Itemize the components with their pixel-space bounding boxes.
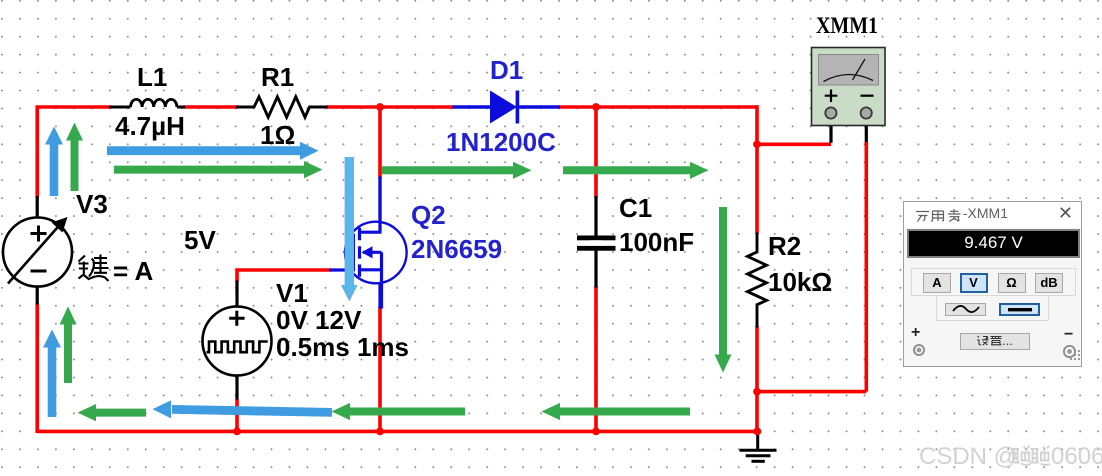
diode D1 1N1200C [453,91,561,124]
svg-text:Q2: Q2 [411,200,446,230]
svg-text:C1: C1 [619,193,652,223]
label C1 [619,193,652,223]
current arrow green right (C1 to R2) [563,162,709,179]
junction node C1 / top rail [592,103,600,111]
wire left vertical below V3 [35,303,39,433]
svg-text:10kΩ: 10kΩ [768,267,832,297]
wire V1 top to Q2 gate (red) [235,270,331,282]
transistor Q2 2N6659 (NMOS) [345,177,407,309]
wire V1 top lead (black) [235,281,238,309]
value label 0V 12V [276,305,362,335]
wire right vertical top (to R2) [755,105,759,234]
current arrow blue right (top, through L1-R1) [107,142,319,160]
wire L1 to R1 [183,105,238,109]
value label 1ohm [260,120,295,150]
wire V3 bottom lead (black) [36,286,39,305]
label V3 [76,189,108,219]
value label 10kohm [768,267,832,297]
label R2 [768,231,801,261]
wire V3 top lead (black) [36,196,39,218]
junction node V1 / bottom rail [233,428,241,436]
multimeter dialog window 万用表-XMM1 [903,201,1082,367]
current arrow green left (bottom, C1 to Q2) [332,403,466,420]
wire V1 bottom lead (black) [235,375,238,400]
value label 1N1200C [446,127,556,157]
svg-text:V1: V1 [276,278,308,308]
current arrow cyan down (through Q2) [341,157,358,302]
svg-text:0606: 0606 [1051,443,1102,470]
current arrow green right (top, through L1-R1) [114,161,323,178]
value label 0.5ms 1ms [276,332,409,362]
wire multimeter minus lead (red) [757,142,866,392]
wire multimeter plus lead (red) [757,143,831,147]
label Q2 [411,200,446,230]
resistor R2 10kohm [748,233,767,328]
wire Q2 drain branch (red part) [378,107,382,178]
wire Q2 gate lead (blue) [330,268,354,271]
value label 100nF [619,227,694,257]
current arrow blue up (left top) [45,127,63,197]
wire Q2 source branch (red part) [378,307,382,431]
wire V1 bottom branch (red) [235,399,239,431]
key label: 键 = A (glyph drawn) [79,255,154,287]
junction node Q2 drain / top rail [376,103,384,111]
svg-text:V3: V3 [76,189,108,219]
wire Q2 drain (blue) [378,177,381,233]
label L1 [137,62,167,92]
junction node ground / bottom rail [753,428,761,436]
resistor R1 1ohm [236,97,328,117]
wire bottom rail [37,430,758,434]
junction node Q2 source / bottom rail [376,428,384,436]
svg-text:= A: = A [113,256,153,286]
current arrow green left (bottom far left) [78,404,147,421]
watermark CSDN @聪聪0606 [919,443,1102,470]
ground symbol [740,432,777,461]
value label 5V [184,225,216,255]
svg-text:0.5ms 1ms: 0.5ms 1ms [276,332,409,362]
svg-text:L1: L1 [137,62,167,92]
svg-text:4.7µH: 4.7µH [115,111,185,141]
instrument label XMM1 [816,13,878,38]
svg-text:R2: R2 [768,231,801,261]
wire top-left segment (V3 to L1) [37,105,111,198]
svg-text:100nF: 100nF [619,227,694,257]
svg-text:2N6659: 2N6659 [411,234,502,264]
wire R1 to D1 [326,105,454,109]
wire right vertical bottom (R2 to ground node) [755,326,759,432]
wire D1 to right corner (node out) [559,105,759,109]
svg-text:0V 12V: 0V 12V [276,305,362,335]
junction node multimeter plus / right rail [753,140,761,148]
current arrow blue left (bottom, V1 to left) [153,400,333,418]
svg-text:1N1200C: 1N1200C [446,127,556,157]
label V1 [276,278,308,308]
capacitor C1 100nF [577,196,616,288]
current arrow green right (Q2 to C1) [382,162,532,179]
wire C1 branch top (red) [594,107,598,198]
svg-text:R1: R1 [261,62,294,92]
svg-text:D1: D1 [490,55,523,85]
current arrow blue up (left bottom) [43,330,61,418]
junction node multimeter minus / right rail [753,388,761,396]
svg-text:CSDN @: CSDN @ [919,443,1018,470]
wire multimeter plus black stub [829,117,832,143]
value label 4.7uH [115,111,185,141]
junction node C1 / bottom rail [592,428,600,436]
source V1 (pulse 0V 12V) [203,307,272,376]
wire Q2 source (blue) [378,252,381,308]
label D1 [490,55,523,85]
current arrow green up (left top) [66,123,83,192]
wire C1 branch bottom (red) [594,286,598,431]
inductor L1 4.7uH [109,99,185,107]
current arrow green down (through R2) [715,207,732,373]
source V3 (variable DC, key=A) [3,217,72,287]
wire multimeter minus black stub [865,117,868,142]
multimeter XMM1 icon [812,48,886,126]
current arrow green up (left bottom) [60,307,77,384]
svg-text:XMM1: XMM1 [816,13,878,38]
svg-text:5V: 5V [184,225,216,255]
value label 2N6659 [411,234,502,264]
current arrow green left (bottom, R2 to C1) [542,403,691,420]
svg-text:1Ω: 1Ω [260,120,295,150]
label R1 [261,62,294,92]
